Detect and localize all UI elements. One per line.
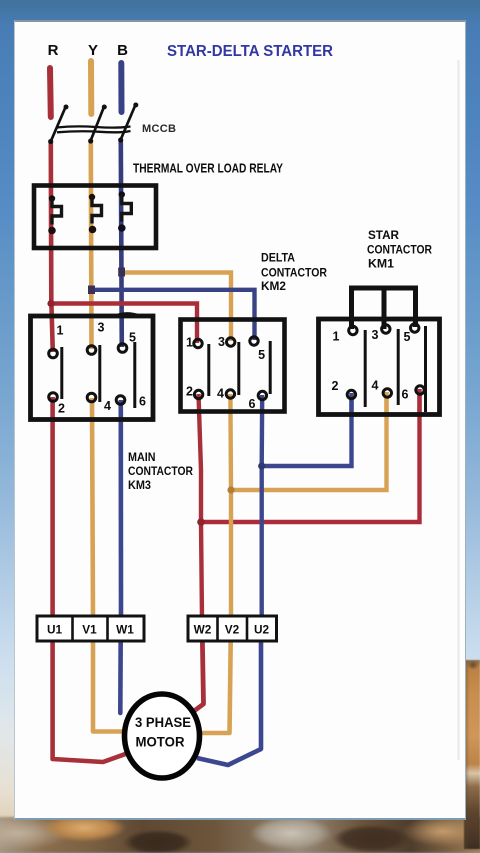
KM1 contact bar pole 3-4 [397,329,400,405]
label DELTA CONTACTOR KM2 [261,251,327,294]
phase label B [117,42,128,59]
KM2 pin number 5 [258,348,265,362]
wire B branch feed to KM2 terminal 5 [89,290,255,340]
wire KM3 output U1 (red) [50,397,55,619]
title [167,43,333,60]
breaker MCCB pole B [118,103,138,143]
svg-text:STAR: STAR [368,228,399,242]
svg-text:1: 1 [186,336,193,350]
wire V1 to motor (orange) [93,619,124,732]
KM3 contact bar pole 3-4 [98,345,101,402]
overload heater element B [118,191,131,232]
terminal label W2 [194,623,212,637]
terminal strip U1 V1 W1 [37,616,144,641]
KM1 terminal 2 [347,390,355,398]
svg-text:4: 4 [217,387,224,401]
terminal label U2 [254,623,270,637]
KM2 pin number 3 [218,335,225,349]
svg-text:Y: Y [88,42,98,59]
KM3 pin number 4 [104,399,111,413]
svg-text:CONTACTOR: CONTACTOR [367,243,432,257]
wire KM3 output W1 (blue) [119,400,124,619]
breaker MCCB pole R [48,105,68,145]
wire Y branch feed to KM2 terminal 3 [122,273,232,342]
KM1 terminal 5 [411,324,419,332]
svg-text:KM2: KM2 [261,279,286,293]
page crease shading near right edge [458,60,460,760]
terminal label W1 [116,623,134,637]
svg-text:6: 6 [402,388,409,402]
svg-text:U1: U1 [47,623,63,637]
svg-text:5: 5 [404,330,411,344]
svg-text:4: 4 [104,399,111,413]
overload heater element Y [89,194,102,234]
wire red link KM2-2 to KM1-6 [201,391,420,522]
KM3 contact bar pole 1-2 [60,347,63,399]
KM1 terminal 3 [382,325,390,333]
svg-text:CONTACTOR: CONTACTOR [128,464,193,478]
svg-text:1: 1 [57,324,64,338]
wire KM2 output 4 (orange) down to junction [228,394,233,490]
KM3 pin number 1 [57,324,64,338]
svg-text:6: 6 [139,395,146,409]
wire KM2 output 6 (blue) down to junction [260,395,265,466]
phase label Y [88,42,98,59]
KM3 pin number 2 [58,402,65,416]
KM2 pin number 2 [186,385,193,399]
KM1 star shorting bridge [352,288,416,329]
wire blue link KM2-6 to KM1-2 [262,393,352,466]
wire Y main vertical (MCCB to KM3 terminal 3) [89,142,94,349]
label MCCB [142,123,176,135]
wire orange drop to V2 [229,490,233,619]
svg-text:2: 2 [58,402,65,416]
KM1 contact bar pole 1-2 [364,330,367,407]
KM1 pin number 1 [333,330,340,344]
svg-text:DELTA: DELTA [261,251,295,265]
svg-text:3: 3 [98,321,105,335]
KM1 pin number 4 [372,379,379,393]
label thermal overload relay [133,162,283,176]
KM3 terminal 4 [87,393,96,402]
star contactor KM1 box [319,319,440,415]
breaker MCCB pole Y [88,105,107,144]
svg-text:B: B [117,42,128,59]
svg-text:3: 3 [218,335,225,349]
terminal strip W2 V2 U2 [188,616,277,641]
svg-text:THERMAL OVER LOAD RELAY: THERMAL OVER LOAD RELAY [133,162,283,176]
KM3 terminal 2 [49,393,58,402]
wire R branch feed to KM2 terminal 1 [51,304,197,344]
svg-text:KM1: KM1 [368,257,394,271]
KM3 pin number 5 [129,331,136,345]
svg-text:MOTOR: MOTOR [136,735,185,750]
junction blob orange V2 [227,486,234,493]
svg-text:4: 4 [372,379,379,393]
KM1 contact bar pole 5-6 [424,326,427,412]
KM2 terminal 3 [227,338,235,346]
wire U2 to motor (blue) [197,619,261,765]
svg-text:W2: W2 [194,623,212,637]
KM3 terminal 3 [87,346,96,355]
delta contactor KM2 box [181,320,285,412]
label STAR CONTACTOR KM1 [367,228,432,271]
KM2 contact bar pole 3-4 [237,342,240,395]
wire R main vertical (MCCB to KM3 terminal 1) [51,142,53,352]
KM2 terminal 5 [250,337,258,345]
wire B main vertical (MCCB to KM3 terminal 5) [121,141,122,347]
svg-text:MAIN: MAIN [128,450,156,464]
wire KM1 output 6 stub (red) [417,389,421,414]
KM2 pin number 4 [217,387,224,401]
svg-text:CONTACTOR: CONTACTOR [261,266,327,280]
KM3 pin number 6 [139,395,146,409]
KM2 contact bar pole 1-2 [207,344,210,396]
svg-text:W1: W1 [116,623,134,637]
wire W2 to motor (red) [194,619,204,711]
wire orange link KM2-4 to KM1-4 [231,392,387,490]
wire B supply drop [118,63,124,112]
label MAIN CONTACTOR KM3 [128,450,193,492]
svg-text:2: 2 [332,379,339,393]
wire U1 to motor (red) [53,619,131,762]
svg-text:6: 6 [249,397,256,411]
junction blob red W2 [197,518,205,526]
svg-text:V2: V2 [225,623,240,637]
terminal label U1 [47,623,63,637]
KM1 terminal 1 [349,326,357,334]
KM1 terminal 6 [416,386,424,394]
KM2 pin number 6 [249,397,256,411]
junction blob on B vertical at Y branch start [118,268,125,277]
svg-text:V1: V1 [82,623,97,637]
KM3 pin number 3 [98,321,105,335]
wire KM1 output 4 stub (orange) [384,392,388,414]
KM3 terminal 6 [116,396,125,405]
terminal label V1 [82,623,97,637]
motor M [125,694,200,778]
KM2 terminal 6 [258,391,266,399]
KM3 terminal 1 [49,349,58,358]
svg-text:3: 3 [372,328,379,342]
junction blob blue U2 [258,462,265,469]
phase label R [48,42,59,59]
svg-text:U2: U2 [254,623,270,637]
wire KM3 output V1 (orange) [92,398,93,619]
wire KM1 output 2 stub (blue) [349,393,353,414]
KM3 terminal 5 [118,344,127,353]
KM1 terminal 4 [383,389,391,397]
KM1 pin number 6 [402,388,409,402]
KM1 pin number 2 [332,379,339,393]
KM2 terminal 1 [194,339,202,347]
svg-text:1: 1 [333,330,340,344]
KM1 pin number 3 [372,328,379,342]
KM2 pin number 1 [186,336,193,350]
svg-text:3 PHASE: 3 PHASE [135,715,191,730]
svg-text:2: 2 [186,385,193,399]
wire KM2 output 2 (red) down to junction [199,394,202,522]
svg-text:R: R [48,42,59,59]
junction blob on Y vertical at B branch crossing [88,286,95,295]
KM2 contact bar pole 5-6 [269,341,272,394]
overload heater element R [48,195,61,234]
junction blob R feed [47,300,54,307]
svg-text:5: 5 [258,348,265,362]
overload relay box [34,186,156,249]
svg-text:STAR-DELTA STARTER: STAR-DELTA STARTER [167,43,333,60]
KM1 pin number 5 [404,330,411,344]
wire red drop to W2 [201,522,202,619]
KM2 terminal 2 [194,390,202,398]
svg-text:MCCB: MCCB [142,123,176,135]
main contactor KM3 box [31,313,154,419]
MCCB linkage bars [57,126,131,132]
wire Y supply drop [88,61,94,114]
wire blue drop to U2 [260,466,264,619]
terminal label V2 [225,623,240,637]
KM2 terminal 4 [226,390,234,398]
wire R supply drop [47,68,54,117]
wire W1 to motor (blue) [118,619,123,713]
KM3 contact bar pole 5-6 [133,342,136,408]
svg-text:5: 5 [129,331,136,345]
svg-text:KM3: KM3 [128,478,151,492]
wire V2 to motor (orange) [198,619,231,733]
